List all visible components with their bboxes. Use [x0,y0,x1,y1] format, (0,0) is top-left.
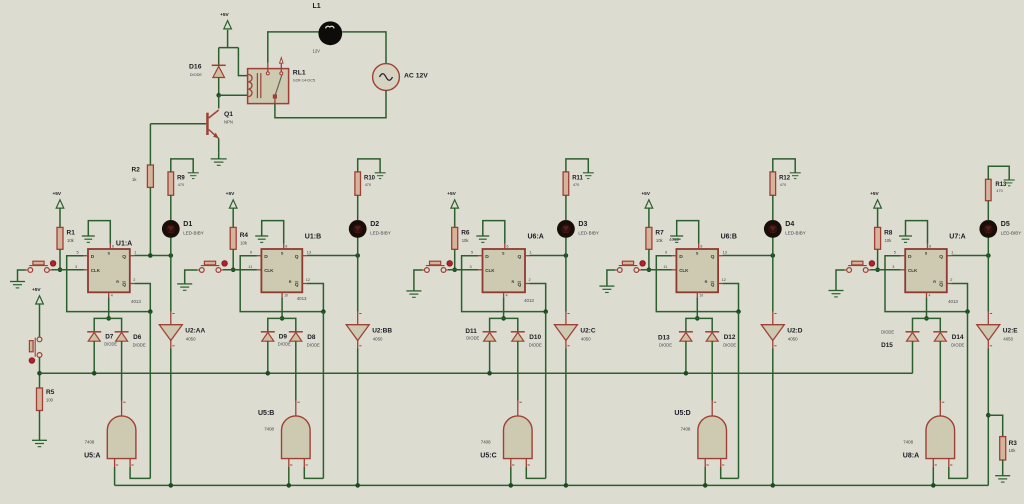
ground (Q1 emitter) [211,153,227,166]
AND gate U5:B (7408) [258,401,310,468]
svg-text:DIODE: DIODE [190,72,203,77]
wire diode rail (U1:B) [268,318,296,331]
wire gate left input to lockout bus (U5:D) [703,467,708,488]
wire diode rail (U6:A) [490,318,518,331]
svg-text:U7:A: U7:A [949,233,965,240]
svg-text:D8: D8 [307,334,316,341]
transistor Q1 [150,95,233,152]
ground (R11) [583,173,594,179]
wire D10 to gate output (U5:C) [517,341,519,400]
pushbutton stage 5 [845,261,871,272]
svg-text:DIODE: DIODE [659,343,672,348]
resistor R8 [875,227,893,249]
svg-text:R12: R12 [779,175,791,181]
wire Q output line (U1:A) [134,253,173,258]
wire diode rail (U1:A) [94,318,121,331]
wire R4 to CLK node [231,249,236,272]
svg-text:3: 3 [75,265,77,269]
wire relay to lamp [268,32,319,63]
wire gate left input to lockout bus (U5:A) [114,467,116,485]
svg-text:U8:A: U8:A [903,453,919,460]
wire D13 to reset bus [684,341,689,375]
wire D to Qbar loop (U1:A) [67,256,153,314]
svg-text:R13: R13 [995,182,1007,188]
ground (button stage 5) [829,291,844,297]
wire button to ground (stage 3) [414,270,423,291]
resistor R1 [57,227,75,249]
flip-flop U6:B (4013) [663,233,737,297]
svg-text:DIODE: DIODE [529,343,542,348]
svg-text:6: 6 [112,245,114,249]
svg-text:7408: 7408 [264,426,274,431]
svg-text:8: 8 [700,245,702,249]
svg-text:U2:E: U2:E [1003,327,1018,334]
flip-flop U6:A (4013) [470,233,544,303]
svg-text:D12: D12 [724,334,736,341]
svg-text:8: 8 [285,245,287,249]
wire R1 to CLK node [58,249,63,272]
svg-text:Q: Q [295,282,299,288]
svg-text:U2:C: U2:C [580,327,595,334]
svg-text:R9: R9 [177,175,185,181]
svg-text:4013: 4013 [524,298,534,303]
wire diode rail (U7:A) [913,318,941,331]
svg-text:4013: 4013 [948,299,958,304]
svg-text:7408: 7408 [681,426,691,431]
svg-text:+5V: +5V [447,191,456,197]
svg-text:G2R-14-DC5: G2R-14-DC5 [293,79,315,83]
svg-text:Q: Q [295,254,299,260]
flip-flop U1:A (4013) [75,241,141,305]
svg-text:R: R [512,280,515,284]
svg-text:4050: 4050 [186,336,196,341]
svg-text:7408: 7408 [903,439,913,444]
svg-text:Q: Q [122,254,126,260]
svg-text:D7: D7 [105,334,114,341]
svg-text:S: S [696,252,699,256]
svg-text:R: R [116,280,119,284]
resistor R11 (470) [563,172,583,220]
svg-text:D9: D9 [279,334,288,341]
svg-text:D2: D2 [370,221,379,228]
wire R-pin to diode rail (U1:A) [106,297,111,320]
svg-text:DIODE: DIODE [307,343,320,348]
LED D1 [162,220,204,256]
wire S-pin to ground (U6:B) [677,221,699,244]
LED D3 [557,220,599,256]
ground (R13) [1004,180,1015,186]
svg-text:100: 100 [46,398,54,403]
svg-text:U5:D: U5:D [674,410,690,417]
svg-text:Q: Q [518,254,522,260]
ground (button stage 4) [599,286,614,292]
svg-text:10k: 10k [462,238,470,243]
wire D to Qbar loop (U7:A) [885,256,970,314]
power +5V (top, relay supply) [220,12,231,48]
resistor R10 (470) [355,172,376,220]
svg-text:10k: 10k [656,238,664,243]
svg-text:R2: R2 [132,167,141,174]
svg-text:D15: D15 [881,342,893,349]
svg-text:NPN: NPN [224,120,233,125]
wire D14 to gate output (U8:A) [939,341,941,400]
reset pushbutton (vertical) [29,337,41,357]
wire S-pin to ground (U1:B) [262,221,284,244]
svg-text:DIODE: DIODE [104,342,117,347]
svg-text:DIODE: DIODE [278,342,291,347]
wire R-pin to diode rail (U7:A) [924,297,929,320]
node reset-bus [37,357,42,388]
ground (button stage 2) [177,284,192,290]
wire diode rail (U6:B) [686,318,712,331]
wire Q output line (U1:B) [307,253,360,258]
svg-text:D1: D1 [183,221,192,228]
svg-text:D: D [485,254,489,260]
resistor R9 (470) [168,172,185,220]
wire CLK line (stage 1) [51,269,88,271]
svg-text:U5:B: U5:B [258,410,274,417]
svg-text:+5V: +5V [52,191,61,197]
svg-text:470: 470 [996,189,1002,193]
svg-text:AC 12V: AC 12V [404,73,428,80]
node D16 anode / Q1 collector / relay coil- [216,93,247,98]
wire R2 to U1:A Q output [149,187,151,255]
svg-text:DIODE: DIODE [723,343,736,348]
relay RL1 [248,58,315,104]
wire R11 to ground bracket [566,159,588,173]
diode D8 [289,332,320,348]
svg-text:Q: Q [939,254,943,260]
svg-text:D16: D16 [189,63,202,70]
wire D to Qbar loop (U6:B) [656,256,741,314]
wire Q output line (U7:A) [951,253,990,258]
wire D6 to gate output (U5:A) [121,341,123,400]
red state dot (stage 1) [49,259,57,267]
buffer U2:E (4050) [977,256,1018,349]
svg-text:3: 3 [892,265,894,269]
svg-text:470: 470 [178,183,184,187]
svg-text:R7: R7 [655,230,664,237]
svg-text:D: D [908,254,912,260]
svg-text:D11: D11 [465,328,477,335]
svg-text:4013: 4013 [131,299,141,304]
wire Qbar branch down to gate (U6:B) [738,312,740,479]
svg-text:11: 11 [663,265,667,269]
buffer U2:AA (4050) [159,256,205,349]
wire R-pin to diode rail (U6:B) [695,297,700,320]
wire R2 to Q1 base [149,124,151,165]
flip-flop U1:B (4013) [248,233,321,301]
svg-text:D: D [91,254,95,260]
flip-flop U7:A (4013) [892,233,965,303]
red state dot (stage 3) [446,259,454,267]
svg-text:10: 10 [699,294,703,298]
diode D12 [705,332,736,348]
AC source AC 12V [373,64,429,91]
resistor R12 (470) [770,172,791,220]
svg-text:U2:D: U2:D [787,327,802,334]
svg-text:R8: R8 [884,230,893,237]
svg-text:1: 1 [951,251,953,255]
svg-text:9: 9 [250,251,252,255]
ground (S-pin U1:B) [255,236,268,242]
svg-text:CLK: CLK [679,268,689,273]
pushbutton stage 3 [422,261,448,272]
wire D15 to reset bus [912,341,914,373]
svg-text:R3: R3 [1009,440,1018,447]
diode D10 [511,332,542,348]
svg-text:+5V: +5V [641,191,650,197]
diode D7 [87,332,117,347]
AND gate U8:A (7408) [903,401,955,468]
wire R-pin to diode rail (U6:A) [501,297,506,320]
ground (R12) [790,173,801,179]
power +5V (R7) [641,191,652,227]
wire U2:E output to R3 [988,415,1002,436]
svg-text:D14: D14 [952,334,964,341]
svg-text:DIODE: DIODE [133,343,146,348]
svg-text:R5: R5 [46,389,55,396]
svg-text:LED-BIBY: LED-BIBY [183,231,204,236]
svg-text:DIODE: DIODE [951,343,964,348]
svg-text:R11: R11 [572,175,583,181]
svg-text:+5V: +5V [32,287,41,293]
pushbutton stage 4 [615,261,641,272]
wire gate right input to Qbar (U5:B) [304,467,323,478]
svg-text:Q: Q [122,282,126,288]
red state dot (stage 5) [868,259,876,267]
diode D9 [261,332,291,347]
wire R9 to ground bracket [171,159,193,173]
wire U2:BB output to lockout bus [355,349,360,488]
resistor R13 (470) [986,179,1008,220]
LED D5 [979,220,1021,256]
svg-text:+5V: +5V [870,191,879,197]
svg-text:4050: 4050 [1003,336,1013,341]
AND gate U5:A (7408) [84,401,136,468]
wire D to Qbar loop (U6:A) [462,256,548,314]
wire lockout bus (horizontal) [115,484,989,486]
power +5V (R4) [226,191,237,227]
wire AC source to relay common [275,90,386,117]
ground (R9) [188,173,199,179]
svg-text:1: 1 [134,251,136,255]
power +5V (R8) [870,191,881,227]
svg-text:Q: Q [939,282,943,288]
power +5V (R6) [447,191,458,227]
svg-text:RL1: RL1 [293,70,306,77]
wire U2:C output to lockout bus [564,349,569,488]
svg-text:10k: 10k [67,238,75,243]
wire R8 to CLK node [875,249,880,272]
AND gate U5:D (7408) [674,401,726,468]
svg-text:+5V: +5V [220,12,229,18]
svg-text:U5:C: U5:C [480,453,496,460]
diode D15 [881,330,919,350]
ground (button stage 3) [406,291,421,297]
svg-text:D: D [679,254,683,260]
wire gate left input to lockout bus (U5:C) [509,467,514,488]
svg-text:Q: Q [711,282,715,288]
wire CLK line (stage 2) [223,269,262,271]
wire D to Qbar loop (U1:B) [240,256,326,314]
svg-text:7408: 7408 [481,439,491,444]
resistor R3 [1000,437,1018,460]
svg-text:10k: 10k [1009,448,1017,453]
wire S-pin to ground (U6:A) [483,221,505,244]
svg-text:4050: 4050 [373,336,383,341]
svg-text:12: 12 [722,278,726,282]
svg-text:2: 2 [950,278,952,282]
svg-text:5: 5 [471,251,473,255]
svg-text:D13: D13 [658,334,670,341]
svg-text:U6:A: U6:A [528,233,544,240]
svg-text:D5: D5 [1001,221,1010,228]
svg-text:11: 11 [248,265,252,269]
svg-text:2: 2 [529,278,531,282]
svg-text:Q: Q [518,282,522,288]
svg-text:U1:B: U1:B [305,233,321,240]
wire gate left input to lockout bus (U8:A) [931,467,936,488]
svg-text:R1: R1 [67,230,76,237]
svg-text:S: S [281,252,284,256]
svg-text:4: 4 [929,294,931,298]
svg-text:Q: Q [711,254,715,260]
svg-text:R: R [289,280,292,284]
wire U2:AA output to lockout bus [169,349,174,488]
wire D9 to reset bus [266,341,271,375]
wire CLK line (stage 5) [870,269,905,271]
svg-text:U5:A: U5:A [84,453,100,460]
wire gate left input to lockout bus (U5:B) [287,467,292,488]
wire R13 to ground bracket [988,166,1009,180]
svg-text:R: R [705,280,708,284]
svg-text:L1: L1 [313,3,321,10]
svg-text:3: 3 [470,265,472,269]
wire button to ground (stage 2) [185,270,198,284]
diode D14 [933,332,964,348]
svg-text:9: 9 [665,251,667,255]
svg-text:4013: 4013 [297,296,307,301]
svg-text:CLK: CLK [908,268,918,273]
svg-text:1: 1 [530,251,532,255]
svg-text:13: 13 [307,251,311,255]
svg-text:6: 6 [929,245,931,249]
wire Qbar branch down to gate (U6:A) [545,312,547,479]
resistor R6 [452,227,470,249]
svg-text:13: 13 [723,251,727,255]
pushbutton stage 2 [197,261,223,272]
wire button to ground (stage 4) [607,270,615,286]
wire U2:D output to lockout bus [771,349,776,488]
svg-text:4050: 4050 [788,336,798,341]
lamp L1 [313,3,343,54]
svg-text:R6: R6 [461,230,470,237]
svg-text:LED-BIBY: LED-BIBY [785,231,806,236]
svg-text:LED-BIBY: LED-BIBY [370,231,391,236]
red state dot (stage 4) [639,259,647,267]
svg-text:R4: R4 [240,232,249,239]
svg-text:10: 10 [284,294,288,298]
svg-text:7408: 7408 [85,439,95,444]
svg-text:DIODE: DIODE [466,336,479,341]
wire Qbar branch down to gate (U1:A) [149,312,151,479]
wire D11 to reset bus [487,341,492,375]
svg-text:10k: 10k [885,238,893,243]
wire gate right input to Qbar (U8:A) [949,467,968,478]
wire Qbar branch down to gate (U1:B) [322,312,324,479]
svg-text:LED-BIBY: LED-BIBY [1001,231,1022,236]
svg-text:D3: D3 [578,221,587,228]
power +5V (reset rail) [32,287,43,337]
svg-text:LED-BIBY: LED-BIBY [578,231,599,236]
red state dot (stage 2) [221,259,229,267]
LED D2 [349,220,391,256]
svg-text:470: 470 [573,183,579,187]
wire S-pin to ground (U1:A) [88,221,110,244]
svg-text:5: 5 [894,251,896,255]
pushbutton stage 1 [26,261,52,272]
wire R10 to ground bracket [358,159,380,173]
wire Q output line (U6:A) [530,253,569,258]
buffer U2:D (4050) [761,256,802,349]
ground (S-pin U1:A) [82,236,95,242]
ground (S-pin U7:A) [899,236,912,242]
diode D11 [465,328,496,341]
wire gate right input to Qbar (U5:D) [721,467,739,478]
wire +5V rail to D16 and relay coil [219,48,248,76]
svg-text:CLK: CLK [264,268,274,273]
svg-text:+5V: +5V [226,191,235,197]
wire reset bus (horizontal) [40,372,913,374]
svg-text:4: 4 [506,294,508,298]
wire gate right input to Qbar (U5:A) [130,467,150,478]
diode D16 [189,63,226,95]
svg-text:4050: 4050 [581,336,591,341]
wire gate right input to Qbar (U5:C) [526,467,545,478]
svg-text:U1:A: U1:A [116,241,132,248]
ground (R3) [995,460,1010,482]
buffer U2:BB (4050) [346,256,392,349]
svg-text:CLK: CLK [91,268,101,273]
svg-text:6: 6 [507,245,509,249]
wire D7 to reset bus [92,341,97,375]
diode D13 [658,332,693,348]
red state dot (reset button) [28,357,36,365]
svg-text:10k: 10k [240,241,248,246]
svg-text:U2:AA: U2:AA [185,327,205,334]
wire R-pin to diode rail (U1:B) [280,297,285,320]
resistor R7 [646,227,679,249]
ground (S-pin U6:B) [670,236,683,242]
resistor R4 [230,227,248,249]
ground (button stage 1) [10,282,25,288]
svg-text:5: 5 [77,251,79,255]
resistor R5 [37,388,55,411]
wire button to ground (stage 5) [836,270,845,291]
power +5V (R1) [52,191,63,227]
buffer U2:C (4050) [554,256,595,349]
ground (R10) [375,173,386,179]
wire S-pin to ground (U7:A) [906,221,928,244]
svg-text:2: 2 [133,278,135,282]
svg-text:DIODE: DIODE [881,330,894,335]
svg-text:470: 470 [365,183,371,187]
svg-text:R10: R10 [364,175,376,181]
wire lamp to AC source [342,32,386,64]
wire Q output line (U6:B) [723,253,776,258]
wire R6 to CLK node [452,249,457,272]
